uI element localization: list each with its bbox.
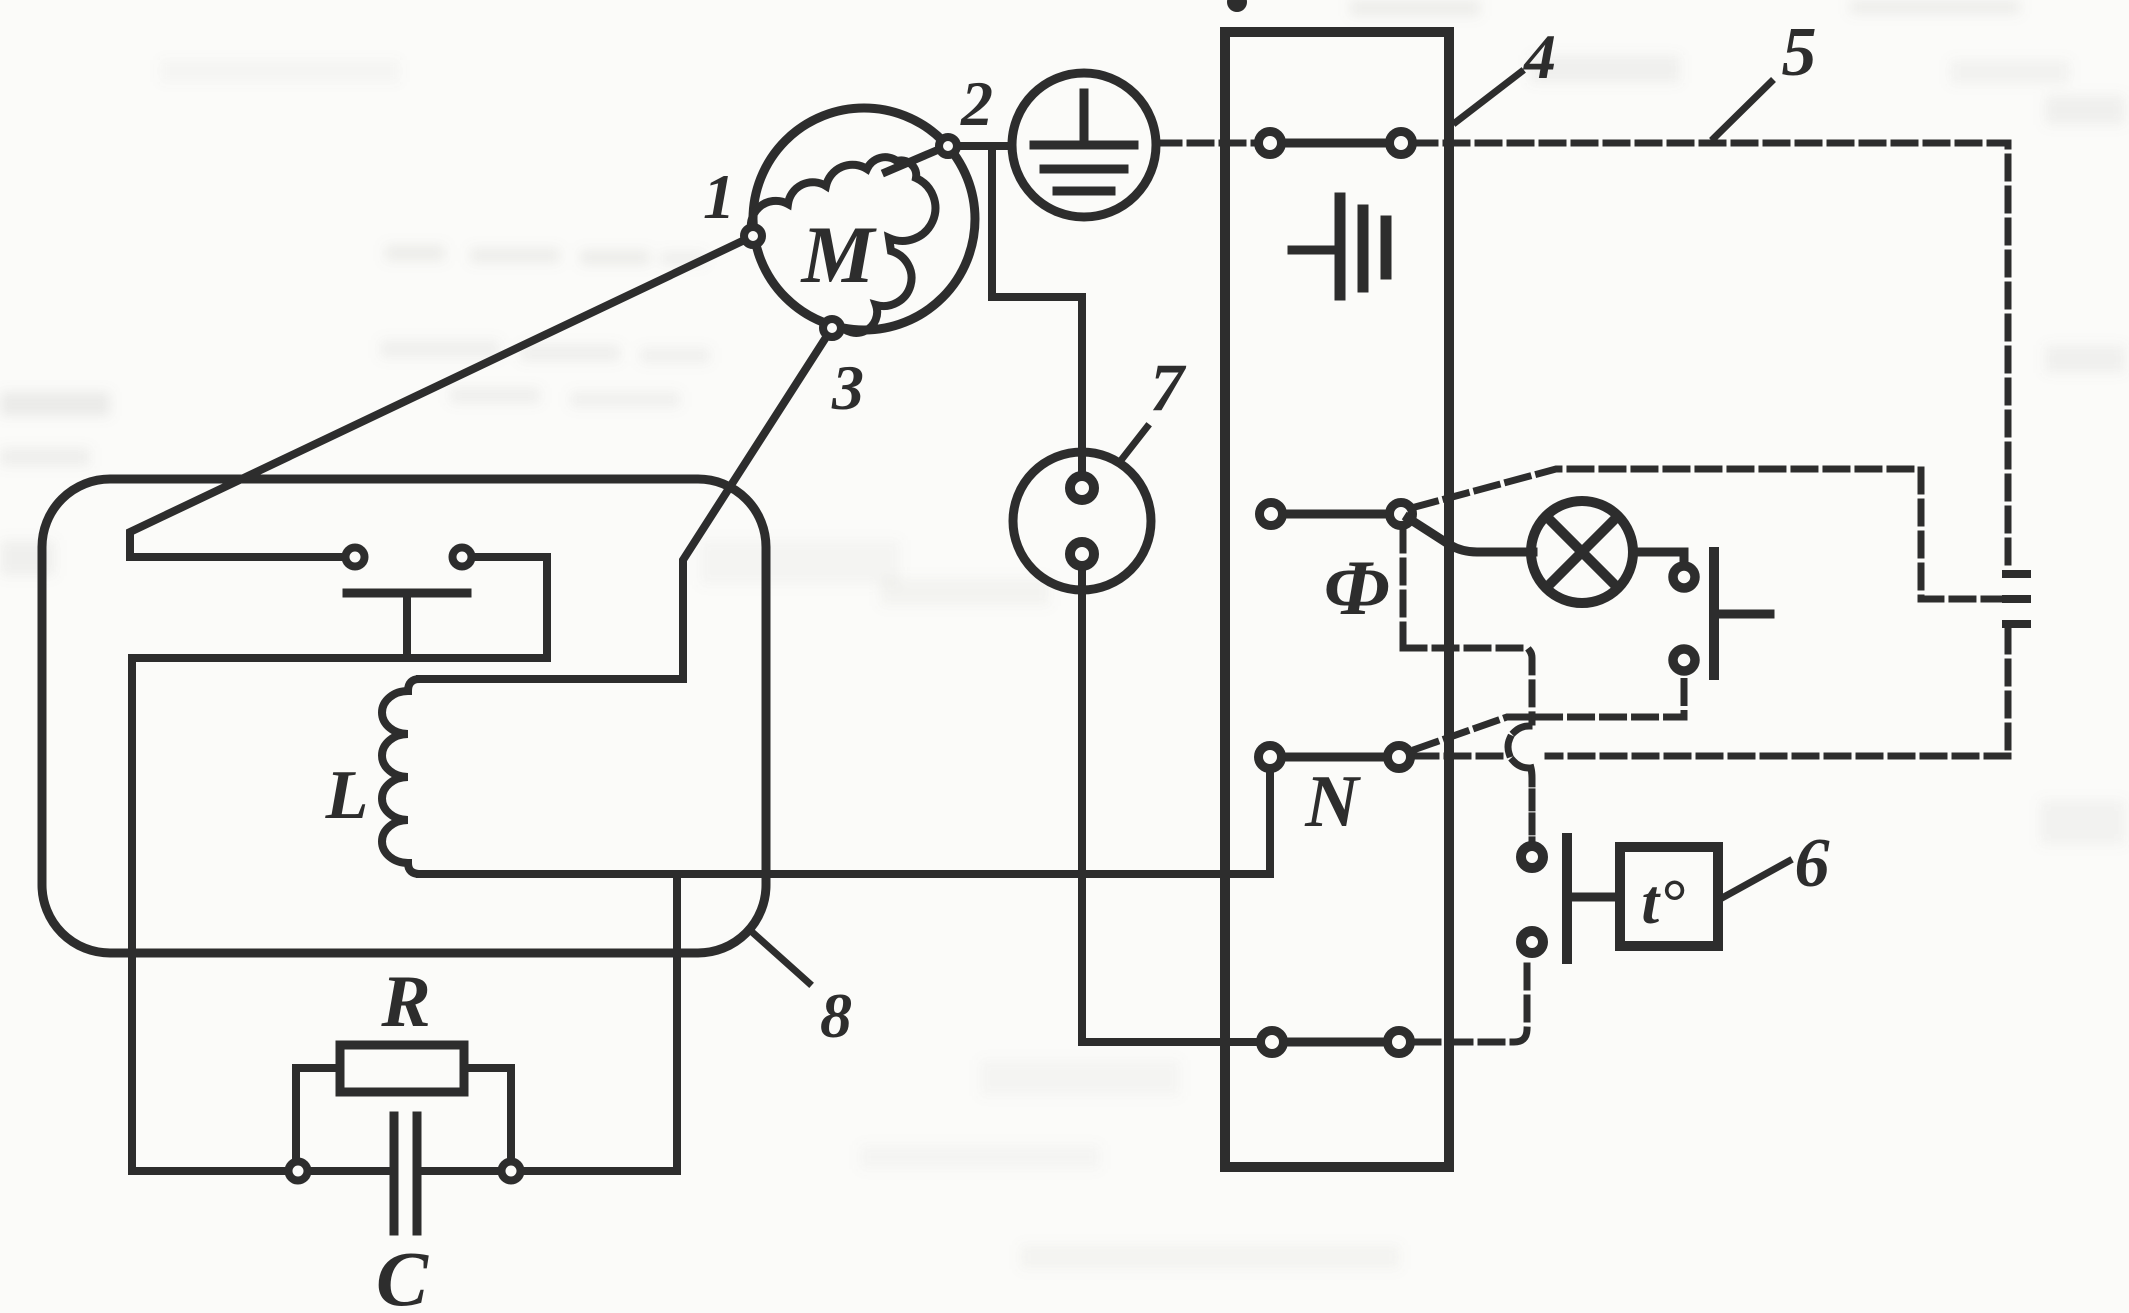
leader line for label 4 (1456, 72, 1521, 122)
chassis ground bar 3 (1381, 221, 1392, 274)
terminal bottom right (1388, 1031, 1411, 1054)
relay housing 8 (rounded box) (42, 479, 766, 953)
relay switch contact right (453, 548, 472, 567)
svg-text:6: 6 (1795, 825, 1830, 902)
resistor R left lead (296, 1068, 340, 1158)
capacitor C right plate (413, 1116, 422, 1231)
svg-text:7: 7 (1150, 349, 1187, 425)
leader line for label 6 (1722, 861, 1789, 898)
wire lamp to push button (1633, 552, 1684, 561)
terminal N left (1259, 746, 1282, 769)
wire from terminal Ф to lamp (1408, 518, 1533, 552)
relay switch bridge bar (347, 589, 467, 598)
RC rail bottom (132, 1167, 677, 1175)
capacitor C left plate (390, 1116, 399, 1231)
lamp cross stroke A (1547, 517, 1617, 587)
thermostat actuator bar (1562, 838, 1572, 959)
motor stator winding squiggle (751, 146, 947, 333)
wire dashed hop to thermostat upper contact (1531, 768, 1532, 840)
wire from terminal N left down and out (1266, 772, 1274, 871)
svg-text:N: N (1304, 761, 1361, 843)
thermostat box 6 (1620, 847, 1718, 946)
wire coil bottom to terminal N of panel (420, 772, 1270, 874)
thermostat upper contact (1521, 846, 1543, 868)
svg-text:t°: t° (1641, 866, 1685, 937)
lamp circle (1531, 501, 1633, 603)
wire stub right edge A (2006, 570, 2027, 578)
wire from plug lower pin down to panel bottom row (1082, 572, 1257, 1042)
motor terminal 3 (823, 319, 841, 337)
terminal row Ф bar (1271, 510, 1401, 519)
leader line for label 8 (752, 932, 809, 983)
terminal bottom row bar (1272, 1038, 1399, 1047)
resistor R box (340, 1045, 464, 1092)
wire from motor terminal 2 down to plug upper pin (992, 146, 1082, 470)
svg-text:3: 3 (831, 352, 864, 423)
svg-text:C: C (376, 1235, 429, 1313)
push button upper contact (1673, 566, 1695, 588)
push button lower contact (1673, 649, 1695, 671)
wire from motor terminal 2 to earth circle (961, 142, 1010, 150)
plug pin upper (1070, 476, 1094, 500)
motor M circle (753, 108, 975, 330)
motor terminal 1 (744, 227, 762, 245)
terminal row1 left (1259, 132, 1282, 155)
node RC left (289, 1162, 308, 1181)
wire hop over N wire (1508, 726, 1529, 768)
svg-text:1: 1 (703, 161, 735, 232)
svg-text:4: 4 (1523, 21, 1556, 92)
svg-text:5: 5 (1782, 14, 1817, 91)
leader line for label 7 (1122, 427, 1147, 459)
wire stub right edge C (2006, 620, 2027, 628)
wire from motor terminal 3 to coil feed corner (420, 328, 832, 679)
lamp cross stroke B (1547, 517, 1617, 587)
wire dashed from terminal Ф down to thermostat contact (with hop) (1403, 529, 1532, 722)
earth bar long (1034, 141, 1134, 150)
inductor L coil (382, 679, 683, 874)
motor terminal 2 (939, 137, 957, 155)
wire junction down to RC network right node (673, 874, 681, 1171)
wire dashed from bottom terminal row to thermostat lower contact (1417, 960, 1527, 1042)
wire from motor terminal 1 to relay housing switch (130, 236, 753, 557)
svg-text:8: 8 (820, 980, 852, 1051)
terminal Ф left (1260, 503, 1283, 526)
plug connector 7 circle (1013, 452, 1151, 590)
svg-text:R: R (380, 961, 430, 1043)
chassis ground bar 1 (1335, 198, 1346, 295)
svg-text:M: M (800, 209, 878, 300)
relay switch loop wire: right contact to stem rail (132, 557, 547, 1171)
svg-text:L: L (325, 757, 369, 834)
leader line for label 5 (1714, 82, 1771, 138)
relay switch contact left (346, 548, 365, 567)
push button actuator bar (1709, 552, 1719, 675)
chassis ground symbol in panel (1292, 246, 1334, 255)
relay switch stem (403, 593, 411, 658)
node RC right (502, 1162, 521, 1181)
thermostat stem (1572, 893, 1620, 902)
wire dashed from terminal N to lamp push-button (1416, 676, 1684, 749)
resistor R right lead (464, 1068, 511, 1158)
terminal Ф right (1390, 503, 1413, 526)
plug pin lower (1070, 542, 1094, 566)
top edge artifact dot (1227, 0, 1247, 12)
thermostat lower contact (1521, 931, 1543, 953)
wire dashed from lamp area: terminal Ф to right edge (1415, 469, 2006, 599)
terminal row 1 bar (1270, 139, 1401, 148)
wire dashed line 5 from terminal row 1 to right edge (1158, 143, 2008, 566)
earth bar short (1057, 187, 1111, 196)
terminal panel 4 (1225, 32, 1449, 1167)
terminal row N bar (1270, 753, 1399, 762)
protective earth symbol circle (1012, 73, 1156, 217)
earth bar middle (1044, 165, 1124, 174)
terminal bottom left (1261, 1031, 1284, 1054)
svg-text:2: 2 (960, 68, 993, 139)
wire dashed from right edge stub to terminal N row (1416, 630, 2008, 756)
push button stem (1719, 610, 1770, 619)
chassis ground bar 2 (1358, 210, 1369, 287)
svg-text:Ф: Ф (1324, 544, 1390, 631)
terminal row1 right (1390, 132, 1413, 155)
terminal N right (1388, 746, 1411, 769)
earth stem (1080, 93, 1089, 143)
wire stub right edge B (2006, 595, 2027, 603)
